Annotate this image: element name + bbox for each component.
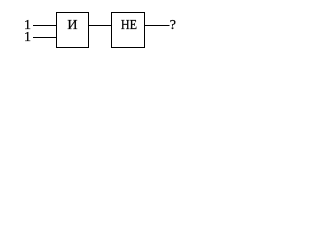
svg-text:?: ? — [170, 18, 176, 33]
wire connector И to НЕ — [88, 25, 112, 27]
wire input 1 — [33, 25, 57, 27]
svg-text:НЕ: НЕ — [121, 18, 137, 33]
gate AND (И) box — [57, 13, 89, 48]
wire input 2 — [33, 37, 57, 39]
gate NOT (НЕ) box — [112, 13, 145, 48]
wire output — [144, 25, 170, 27]
svg-text:1: 1 — [24, 30, 31, 45]
svg-text:И: И — [67, 18, 77, 33]
